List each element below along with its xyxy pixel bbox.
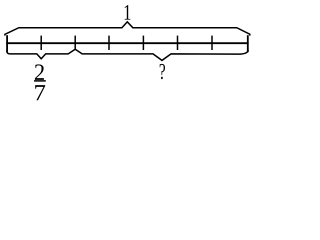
tick end left [6, 35, 8, 52]
tick 4 [142, 36, 144, 50]
question mark label [160, 64, 165, 79]
tick 6 [211, 36, 213, 50]
bottom brace under first two parts [7, 49, 75, 58]
fraction 2/7 numerator [35, 64, 44, 80]
label 1 [125, 5, 131, 20]
top brace spanning whole bar [5, 22, 250, 36]
tick 1 [40, 36, 42, 50]
tick end right [247, 35, 249, 52]
fraction 2/7 denominator [35, 85, 45, 100]
fraction tape diagram: bar of 7 parts, top brace labelled 1, bottom braces labelled 2/7 and ? [0, 0, 253, 111]
fraction bar [34, 80, 46, 82]
tick 2 [74, 36, 76, 50]
tick 3 [108, 36, 110, 50]
bottom brace under remaining five parts [75, 49, 248, 60]
bar main line [6, 42, 248, 44]
tick 5 [177, 36, 179, 50]
